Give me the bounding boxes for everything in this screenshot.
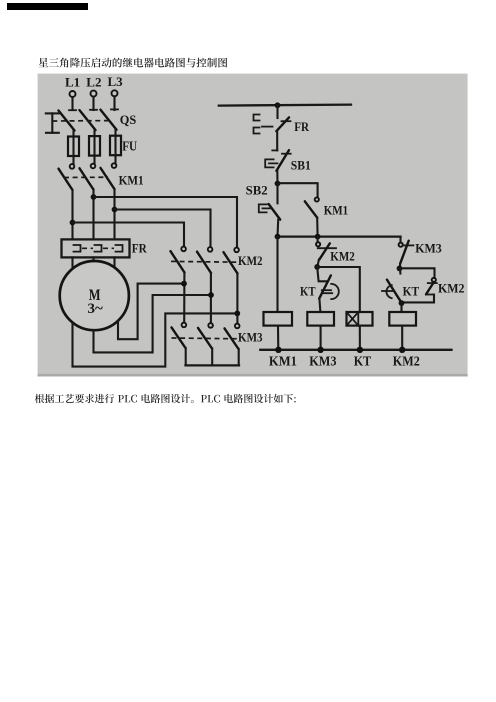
wire rail to KM1 coil bbox=[276, 237, 278, 312]
contact KM2 aux NO bbox=[316, 237, 336, 260]
wire KM1 coil to bottom rail bbox=[277, 326, 279, 350]
contact KT NC delayed bbox=[317, 267, 339, 299]
wire phase C to KM2 pole 2 top bbox=[115, 210, 211, 247]
thermal relay FR box bbox=[62, 239, 130, 257]
wire motor U2 to star bar bbox=[73, 313, 238, 366]
bottom text: 根据工艺要求进行 PLC 电路图设计。PLC 电路图设计如下: bbox=[35, 394, 296, 403]
SB1 button actuator E bbox=[265, 159, 277, 167]
svg-text:KT: KT bbox=[300, 283, 316, 298]
node dot KM2 pole2 / V2 bbox=[208, 292, 214, 298]
svg-text:L3: L3 bbox=[108, 74, 124, 89]
node L1 terminal circle bbox=[70, 91, 76, 110]
node dot rail below KM1 coil bbox=[275, 347, 281, 353]
svg-text:SB1: SB1 bbox=[291, 157, 311, 172]
svg-text:KM1: KM1 bbox=[119, 172, 144, 187]
coil KT with X section bbox=[347, 312, 373, 326]
contactor KM2 main pole 1 bbox=[171, 247, 186, 323]
QS mechanical link (dashed) bbox=[52, 120, 110, 122]
coil KM3 bbox=[307, 312, 334, 326]
SB2 NO pushbutton bbox=[269, 184, 281, 220]
svg-text:KM2: KM2 bbox=[238, 253, 263, 268]
bottom rail bbox=[260, 349, 451, 351]
contactor KM2 main pole 3 bbox=[224, 248, 239, 324]
wire KT contact to KM3 coil bbox=[319, 299, 320, 312]
wire KM3 coil to bottom rail bbox=[320, 326, 322, 350]
contact KM3 aux NO bbox=[399, 237, 414, 269]
svg-text:KM3: KM3 bbox=[309, 355, 336, 370]
contact KT NO delayed bbox=[382, 268, 401, 301]
wire branch to KM1 aux bbox=[278, 183, 318, 197]
fuse FU pole 2 bbox=[89, 136, 100, 164]
panel bottom edge shadow bbox=[38, 374, 468, 377]
FR link dashes bbox=[82, 247, 93, 249]
control supply wire (top) bbox=[219, 105, 351, 106]
svg-text:KT: KT bbox=[403, 283, 420, 298]
contactor KM3 main pole 1 bbox=[172, 323, 187, 365]
FR heater element 2 bbox=[95, 245, 102, 252]
svg-text:KM1: KM1 bbox=[324, 203, 349, 218]
svg-text:FU: FU bbox=[122, 138, 137, 153]
svg-text:QS: QS bbox=[120, 112, 137, 127]
contactor KM3 main pole 2 bbox=[198, 323, 213, 364]
wire SB1 to node bbox=[276, 171, 278, 184]
wire SB2 to rail bbox=[276, 220, 279, 237]
wire dot to KT coil bbox=[317, 267, 360, 312]
motor M circle bbox=[60, 261, 129, 330]
svg-text:FR: FR bbox=[132, 240, 148, 255]
FR actuator rod dash bbox=[262, 126, 273, 128]
node dot KM2 pole3 / U2 bbox=[234, 311, 240, 317]
switch QS pole 3 bbox=[101, 109, 119, 135]
contactor KM1 main pole 2 bbox=[80, 164, 96, 240]
node dot rail below KT coil bbox=[357, 347, 363, 353]
wire phase A to KM2 pole 1 top bbox=[73, 223, 185, 247]
switch QS pole 1 bbox=[59, 110, 77, 136]
SB2 button actuator E bbox=[259, 204, 271, 212]
fuse FU pole 3 bbox=[110, 136, 121, 164]
svg-text:KM1: KM1 bbox=[269, 355, 297, 370]
wire motor V2 loop bbox=[94, 295, 212, 352]
wire blade to dot bbox=[317, 260, 318, 267]
svg-text:KT: KT bbox=[354, 355, 372, 370]
FR heater element 3 bbox=[116, 245, 123, 252]
node dot SB2/KM1 branch bbox=[275, 181, 281, 187]
node dot KM3 branch bbox=[397, 266, 403, 272]
svg-text:KM2: KM2 bbox=[438, 280, 465, 295]
title text: 星三角降压启动的继电器电路图与控制图 bbox=[38, 58, 227, 68]
wire FR to motor W1 bbox=[113, 257, 115, 269]
FR link dashes 2 bbox=[103, 247, 114, 249]
wire dot to KM2 NC branch bbox=[400, 268, 435, 278]
fuse FU pole 1 bbox=[68, 137, 79, 165]
svg-text:KM3: KM3 bbox=[238, 330, 263, 345]
wire FR to motor V1 bbox=[92, 257, 94, 261]
node dot KT feed bbox=[314, 264, 320, 270]
node junction dot phase C bbox=[112, 207, 118, 213]
svg-text:L1: L1 bbox=[65, 75, 80, 90]
svg-text:SB2: SB2 bbox=[246, 182, 268, 197]
contactor KM1 main pole 1 bbox=[59, 164, 75, 239]
svg-text:KM2: KM2 bbox=[330, 248, 355, 263]
wire KM2 coil to bottom rail bbox=[401, 326, 403, 350]
node L3 terminal circle bbox=[112, 90, 118, 110]
svg-text:KM2: KM2 bbox=[393, 355, 420, 370]
contactor KM1 main pole 3 bbox=[101, 163, 117, 239]
FR thermal element symbol bbox=[254, 115, 260, 134]
wire KT coil to bottom rail bbox=[359, 326, 361, 350]
svg-text:3~: 3~ bbox=[88, 301, 103, 317]
node dot rail KM1 bbox=[275, 234, 281, 240]
svg-text:KM3: KM3 bbox=[415, 241, 442, 256]
wire phase B to KM2 pole 3 top bbox=[94, 197, 238, 246]
contact KM2 NC interlock bbox=[402, 278, 437, 303]
svg-text:FR: FR bbox=[294, 119, 309, 134]
node dot rail below KM2 coil bbox=[399, 347, 405, 353]
KM2 mechanical link (dashed) bbox=[171, 260, 239, 263]
wire dot to KM2 coil bbox=[400, 303, 402, 312]
scanned panel background bbox=[38, 74, 468, 377]
node dot KM2 coil feed bbox=[399, 300, 405, 306]
svg-text:L2: L2 bbox=[86, 74, 101, 89]
contactor KM3 main pole 3 bbox=[225, 324, 240, 365]
wire FR to SB1 bbox=[276, 131, 278, 150]
FR heater element 1 bbox=[74, 245, 81, 252]
SB1 NC pushbutton blade bbox=[272, 150, 290, 171]
KM1 mechanical link (dashed) bbox=[64, 176, 108, 178]
contactor KM2 main pole 2 bbox=[197, 247, 212, 323]
node junction dot phase A bbox=[70, 220, 76, 226]
node L2 terminal circle bbox=[91, 91, 97, 110]
black bar top-left bbox=[7, 3, 88, 10]
wire FR to motor U1 bbox=[71, 257, 73, 269]
KM3 mechanical link (dashed) bbox=[172, 337, 240, 340]
node dot KM2 pole1 / W2 bbox=[181, 281, 187, 287]
FR NC contact blade bbox=[276, 117, 290, 131]
coil KM1 bbox=[264, 312, 293, 326]
node dot rail KM2 branch bbox=[315, 234, 321, 240]
wire top dot to FR contact bbox=[276, 105, 278, 118]
coil feed rail bbox=[278, 235, 401, 237]
node dot rail below KM3 coil bbox=[317, 347, 323, 353]
star point bar bbox=[186, 364, 240, 366]
contact KM1 aux (self-hold) bbox=[305, 197, 319, 236]
node dot control top bbox=[275, 102, 281, 108]
switch QS pole 2 bbox=[80, 110, 98, 136]
node junction dot phase B bbox=[91, 194, 97, 200]
coil KM2 bbox=[389, 312, 416, 326]
wire motor W2 loop bbox=[118, 284, 184, 340]
QS operating handle bbox=[46, 113, 59, 132]
